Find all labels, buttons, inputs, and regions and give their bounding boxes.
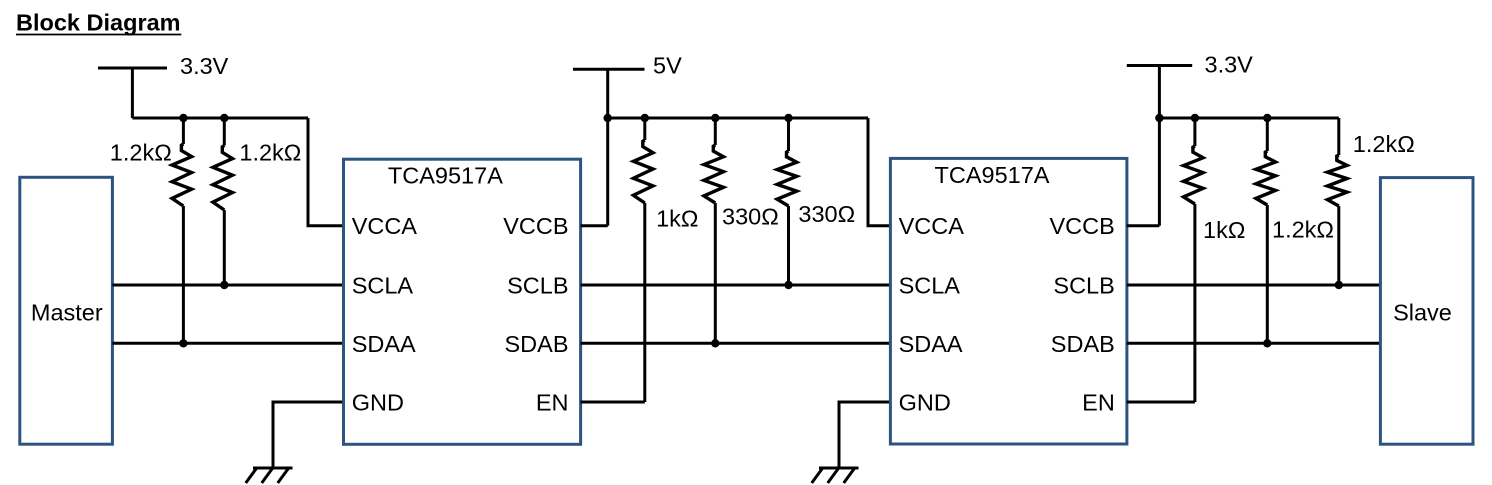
junction R4/SDAB [711, 339, 719, 347]
resistor R3 1kΩ (mid, to EN U1) [633, 118, 653, 402]
junction rail/R5 [784, 114, 792, 122]
svg-text:VCCA: VCCA [899, 213, 965, 239]
svg-text:EN: EN [1082, 389, 1115, 415]
Slave block [1380, 178, 1473, 445]
wire 3.3V drop to VCCB U2 [1158, 66, 1161, 226]
wire SCLB (U2 to Slave) [1127, 284, 1381, 287]
svg-text:TCA9517A: TCA9517A [935, 162, 1050, 188]
wire 5V drop to VCCB U1 [606, 69, 609, 226]
wire SDAB (U2 to Slave) [1127, 342, 1381, 345]
wire rail node 3.3V (left) [132, 117, 308, 120]
junction R5/SCLB [784, 281, 792, 289]
resistor R5 330Ω (mid, to SCLB) [777, 118, 797, 285]
wire EN U1 [581, 401, 645, 404]
IC U2 TCA9517A box [890, 158, 1127, 444]
title "Block Diagram" [16, 10, 181, 36]
resistor R8 1.2kΩ (right, to SCLB) [1327, 118, 1347, 285]
svg-text:Master: Master [31, 300, 103, 326]
wire rail node 5V [608, 117, 868, 120]
resistor R7 1.2kΩ (right, to SDAB) [1256, 118, 1276, 343]
svg-text:VCCB: VCCB [1050, 213, 1115, 239]
ground (U2) [812, 468, 859, 483]
wire rail to VCCA pin U2 [868, 118, 890, 226]
svg-text:Slave: Slave [1393, 300, 1452, 326]
svg-text:1kΩ: 1kΩ [1203, 217, 1245, 243]
junction rail/R3 [641, 114, 649, 122]
resistor R4 330Ω (mid, to SDAB) [704, 118, 724, 343]
svg-text:1kΩ: 1kΩ [656, 205, 698, 231]
svg-text:SCLB: SCLB [507, 273, 568, 299]
wire SDAA (Master to U1) [112, 342, 343, 345]
wire VCCB pin U1 [581, 224, 608, 227]
svg-text:1.2kΩ: 1.2kΩ [1272, 217, 1334, 243]
svg-text:TCA9517A: TCA9517A [388, 163, 503, 189]
wire SCLA (Master to U1) [112, 284, 343, 287]
svg-text:SDAA: SDAA [899, 331, 963, 357]
wire VCCB pin U2 [1127, 224, 1160, 227]
svg-text:GND: GND [899, 389, 951, 415]
svg-text:330Ω: 330Ω [798, 201, 855, 227]
svg-text:GND: GND [352, 389, 404, 415]
Master block [20, 177, 113, 444]
svg-text:SDAB: SDAB [1051, 331, 1115, 357]
junction rail/R2 (left) [220, 114, 228, 122]
supply bar 5V [573, 68, 645, 71]
junction rail/R6 [1191, 114, 1199, 122]
supply bar 3.3V (right) [1127, 64, 1192, 67]
ground (U1) [246, 468, 293, 483]
wire GND U1 [273, 402, 344, 468]
svg-text:1.2kΩ: 1.2kΩ [1353, 131, 1415, 157]
junction R1/SDAA [179, 339, 187, 347]
junction 5V drop/rail [604, 114, 612, 122]
svg-text:Block Diagram: Block Diagram [16, 10, 181, 36]
junction rail/R1 (left) [179, 114, 187, 122]
svg-text:3.3V: 3.3V [180, 53, 229, 79]
svg-text:SCLA: SCLA [352, 273, 414, 299]
svg-text:SDAA: SDAA [352, 331, 416, 357]
junction R7/SDAB (right) [1263, 339, 1271, 347]
wire rail to VCCA pin U1 [308, 118, 344, 226]
junction R8/SCLB (right) [1335, 281, 1343, 289]
resistor R2 1.2kΩ (left, to SCLA) [213, 118, 233, 285]
wire 3.3V drop to rail (left) [131, 68, 134, 118]
svg-text:330Ω: 330Ω [722, 204, 779, 230]
junction rail/R4 [711, 114, 719, 122]
wire SCLB (U1 to U2 SCLA) [581, 284, 891, 287]
svg-text:3.3V: 3.3V [1205, 52, 1254, 78]
svg-text:SCLA: SCLA [899, 273, 961, 299]
wire SDAB (U1 to U2 SDAA) [581, 342, 891, 345]
resistor R1 1.2kΩ (left, to SDAA) [172, 118, 192, 343]
wire EN U2 [1127, 401, 1195, 404]
wire GND U2 [839, 402, 890, 468]
wire rail node 3.3V (right) [1159, 117, 1338, 120]
svg-text:VCCA: VCCA [352, 213, 418, 239]
svg-text:EN: EN [536, 389, 569, 415]
svg-text:SDAB: SDAB [505, 331, 569, 357]
svg-text:1.2kΩ: 1.2kΩ [239, 140, 301, 166]
svg-text:5V: 5V [653, 53, 682, 79]
junction rail/R7 [1263, 114, 1271, 122]
svg-text:VCCB: VCCB [503, 213, 568, 239]
resistor R6 1kΩ (right, to EN U2) [1184, 118, 1204, 402]
svg-text:SCLB: SCLB [1053, 273, 1114, 299]
supply bar 3.3V (left) [98, 67, 167, 70]
svg-text:1.2kΩ: 1.2kΩ [110, 139, 172, 165]
junction 3.3V drop/rail (right) [1155, 114, 1163, 122]
op IC U1 TCA9517A box [344, 159, 581, 444]
junction R2/SCLA [220, 281, 228, 289]
